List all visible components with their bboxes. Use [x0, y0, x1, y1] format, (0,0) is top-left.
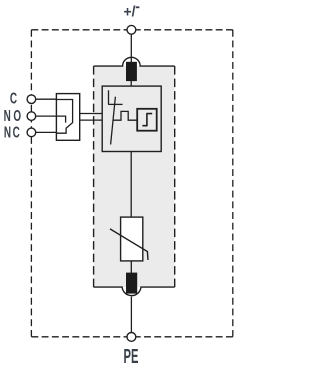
svg-text:PE: PE [124, 346, 139, 366]
svg-text:+/: +/ [124, 4, 136, 21]
svg-text:NC: NC [4, 123, 21, 141]
svg-text:C: C [10, 89, 17, 107]
